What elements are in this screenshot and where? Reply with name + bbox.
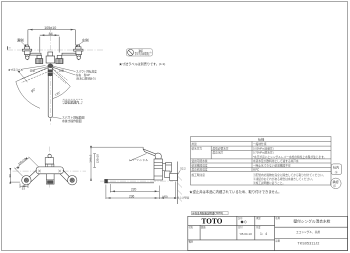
svg-text:水側: 水側 xyxy=(59,68,65,72)
svg-text:スパウト回転角度: スパウト回転角度 xyxy=(76,70,97,74)
svg-text:仕上げ壁面: 仕上げ壁面 xyxy=(177,196,190,200)
svg-text:壁付シングル混合水栓: 壁付シングル混合水栓 xyxy=(294,218,331,223)
svg-text:236: 236 xyxy=(129,194,135,198)
svg-text:220: 220 xyxy=(131,188,137,192)
svg-text:最低必要水圧: 最低必要水圧 xyxy=(213,147,229,151)
svg-text:★寸法ラベルは別売りです。(1:1): ★寸法ラベルは別売りです。(1:1) xyxy=(119,61,165,66)
svg-text:レバーハンドル: レバーハンドル xyxy=(129,158,149,162)
svg-text:水栓金具取扱説明書(TOTO): 水栓金具取扱説明書(TOTO) xyxy=(192,211,223,215)
svg-text:'05.04.10: '05.04.10 xyxy=(240,232,253,236)
svg-text:★逆止弁は本品に内蔵されているため、取り付けできません。: ★逆止弁は本品に内蔵されているため、取り付けできません。 xyxy=(189,189,281,194)
svg-text:84: 84 xyxy=(49,32,53,36)
svg-text:左右 各90°: 左右 各90° xyxy=(76,73,90,77)
svg-text:0.05MPa(流動圧): 0.05MPa(流動圧) xyxy=(253,147,274,151)
svg-text:回転範囲内: 回転範囲内 xyxy=(64,99,79,104)
svg-text:60: 60 xyxy=(8,174,12,178)
svg-text:①配管内の異物を完全に除去してから取り付けてください。: ①配管内の異物を完全に除去してから取り付けてください。 xyxy=(253,173,325,177)
svg-text:印: 印 xyxy=(333,184,336,188)
svg-text:一時止水できない給湯機器不可: 一時止水できない給湯機器不可 xyxy=(253,164,291,168)
svg-text:1：4: 1：4 xyxy=(260,232,267,236)
svg-text:★寸法ラベル: ★寸法ラベル xyxy=(8,68,24,72)
svg-text:最高給湯温度: 最高給湯温度 xyxy=(192,168,208,172)
svg-text:給水圧力: 給水圧力 xyxy=(192,147,203,151)
svg-text:湯側: 湯側 xyxy=(17,37,24,42)
svg-text:使用可能水質: 使用可能水質 xyxy=(192,159,208,163)
svg-text:105±10: 105±10 xyxy=(44,26,56,30)
svg-text:用途: 用途 xyxy=(192,142,198,146)
svg-text:TOTO: TOTO xyxy=(202,218,223,226)
svg-text:③施工説明書に従うこと。: ③施工説明書に従うこと。 xyxy=(253,181,285,185)
svg-text:(吐水口規制あり): (吐水口規制あり) xyxy=(76,76,96,80)
svg-text:85℃: 85℃ xyxy=(253,168,260,172)
svg-text:仕様: 仕様 xyxy=(258,136,265,141)
svg-text:水側: 水側 xyxy=(82,37,89,42)
svg-text:一般地仕様: 一般地仕様 xyxy=(253,142,267,146)
svg-text:TKS05311J2: TKS05311J2 xyxy=(298,241,320,245)
svg-text:(40): (40) xyxy=(162,194,167,198)
svg-text:水道水及び飲料用として適する井戸水: 水道水及び飲料用として適する井戸水 xyxy=(253,159,299,163)
svg-text:湯側: 湯側 xyxy=(30,68,36,72)
svg-text:社内: 社内 xyxy=(333,165,339,170)
svg-text:53: 53 xyxy=(22,187,26,191)
svg-text:52.2: 52.2 xyxy=(180,166,186,170)
svg-text:施工時注意: 施工時注意 xyxy=(192,173,206,177)
svg-text:*水圧が高いとシングルレバー水栓の特性上水撃が生じます。: *水圧が高いとシングルレバー水栓の特性上水撃が生じます。 xyxy=(253,155,326,159)
svg-text:②凍結のおそれがある場合は水抜きしてください。: ②凍結のおそれがある場合は水抜きしてください。 xyxy=(253,177,315,181)
svg-text:給湯機器温度: 給湯機器温度 xyxy=(192,164,208,168)
svg-text:①: ① xyxy=(335,170,338,174)
svg-text:エコシングル、共用: エコシングル、共用 xyxy=(296,230,320,234)
svg-text:0.75MPa(静水圧): 0.75MPa(静水圧) xyxy=(253,151,274,155)
svg-text:146±2: 146±2 xyxy=(89,154,93,162)
svg-text:最高水圧: 最高水圧 xyxy=(213,151,224,155)
svg-text:120±10: 120±10 xyxy=(95,154,99,163)
svg-text:水抜き操作範囲: 水抜き操作範囲 xyxy=(62,119,82,123)
